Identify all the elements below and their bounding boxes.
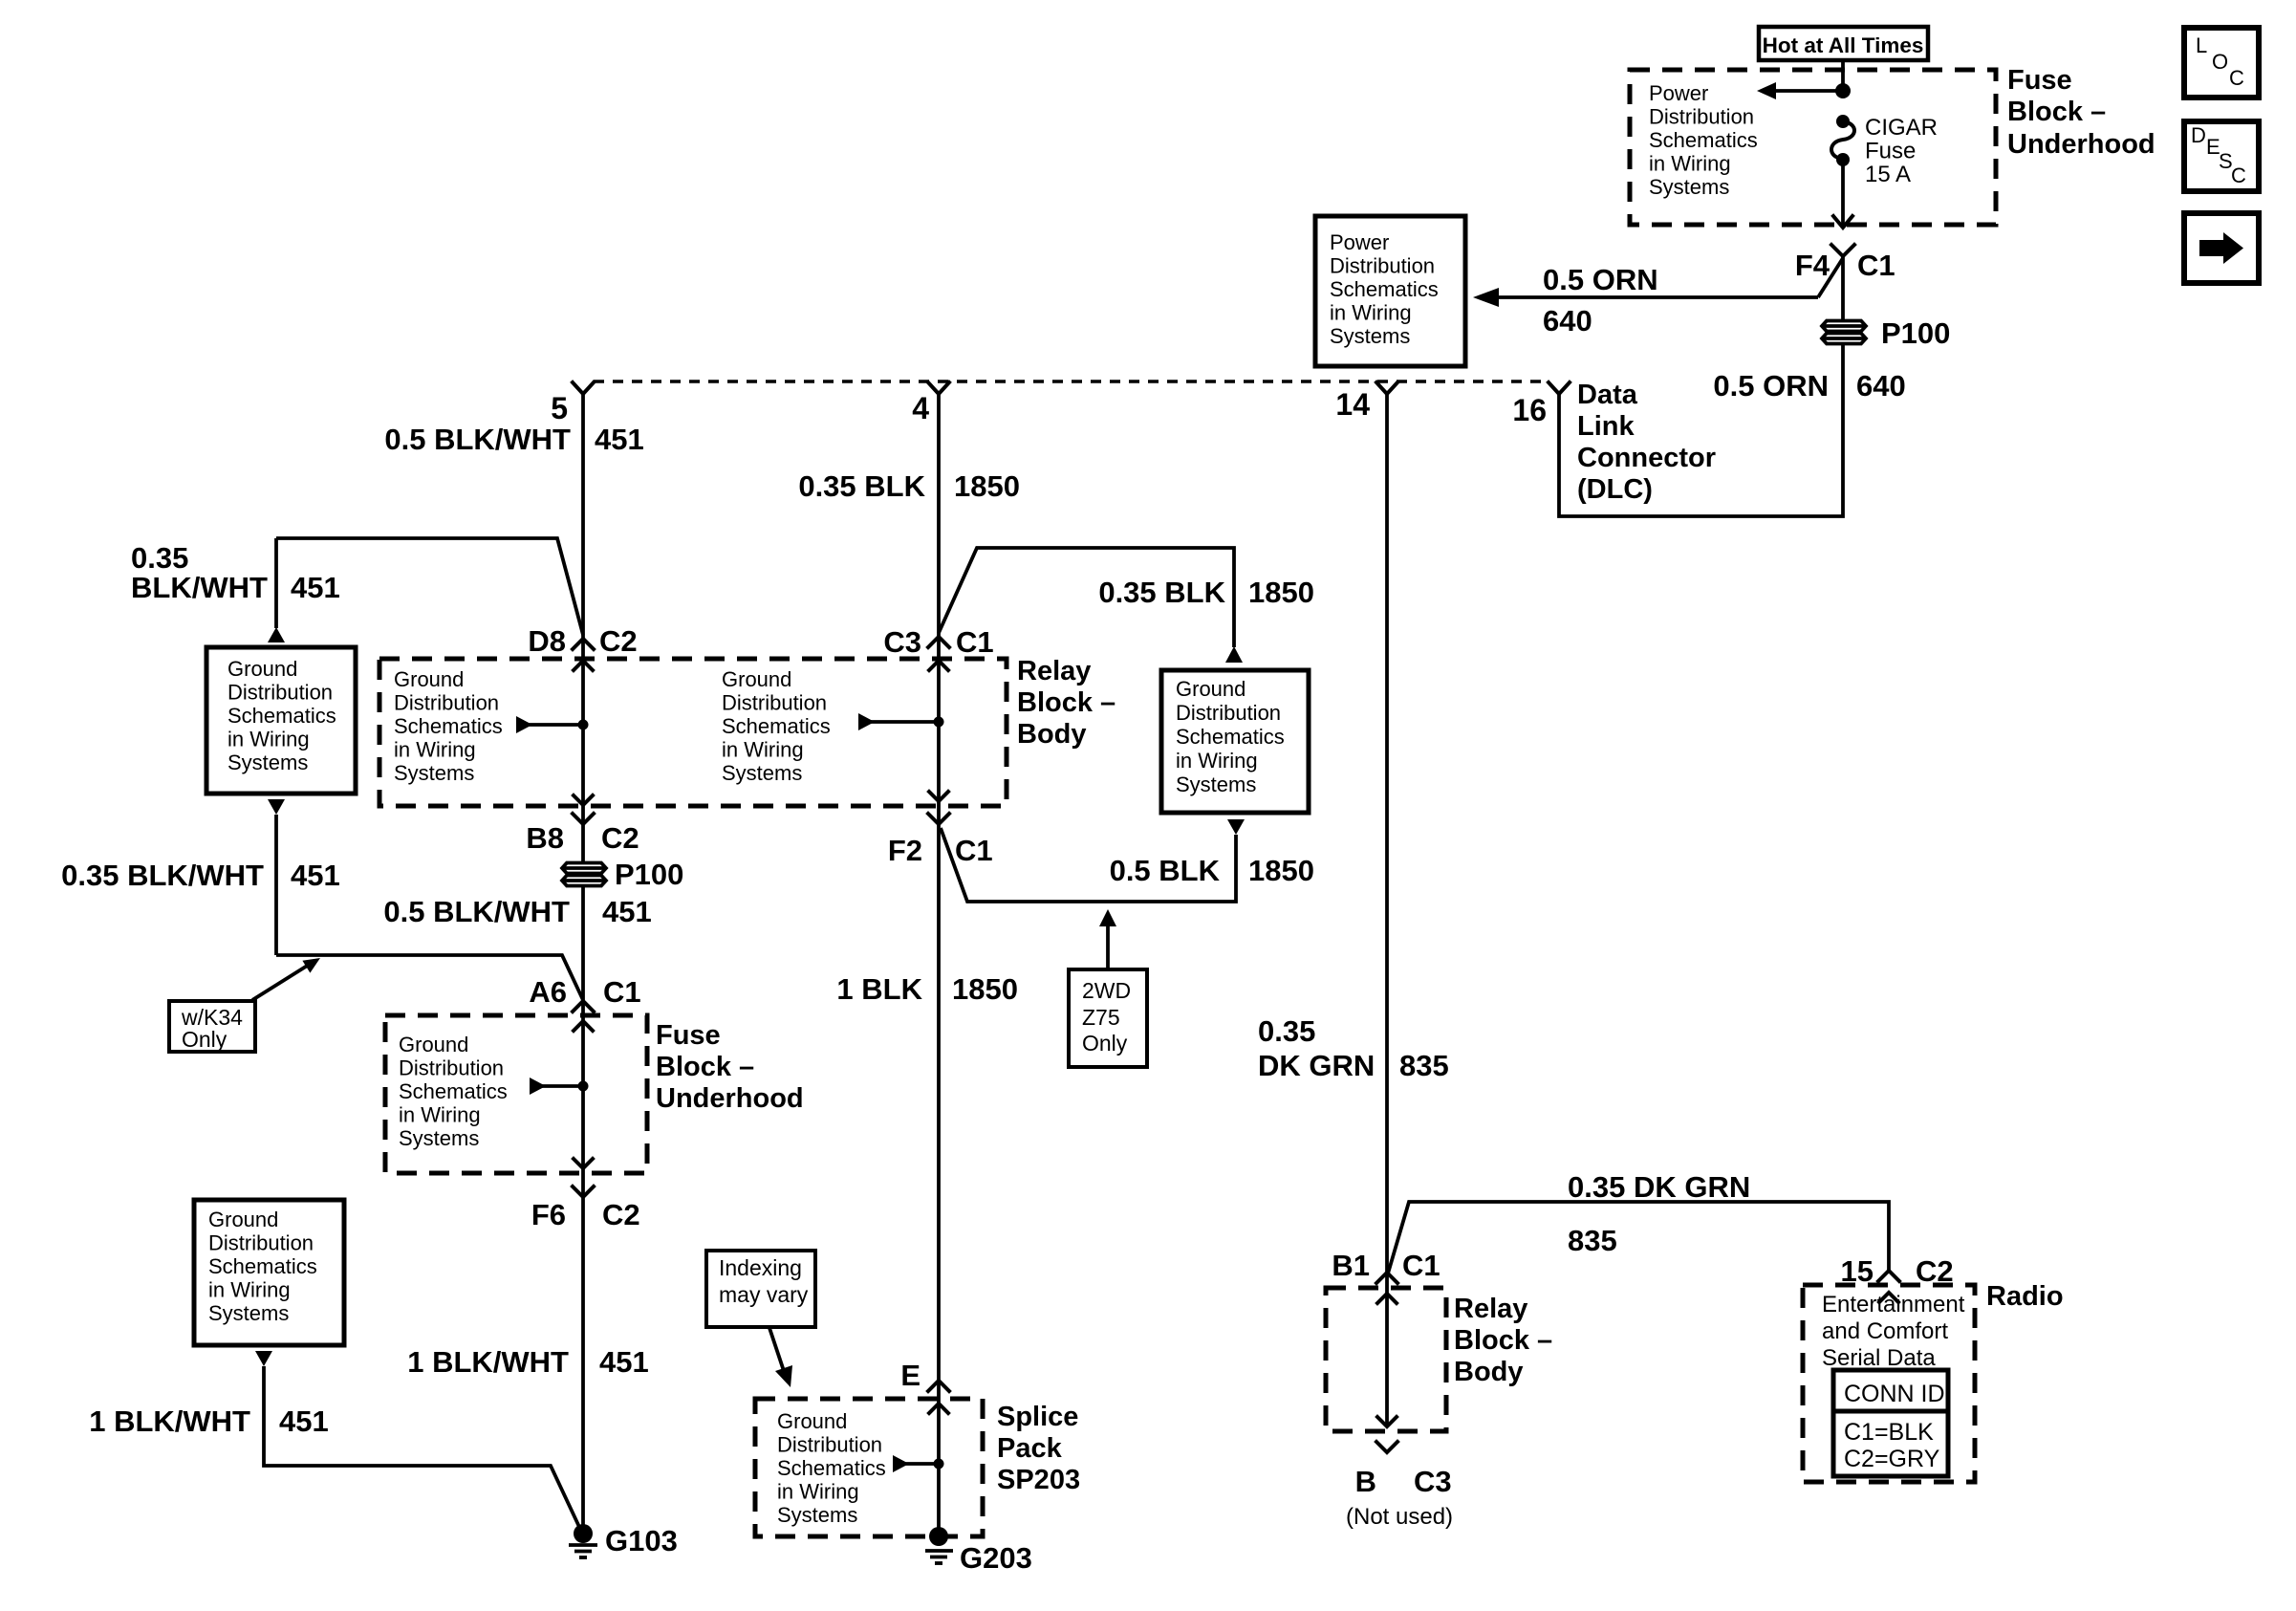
up chevron below top border (radio) (1879, 1293, 1898, 1302)
svg-text:Block –: Block – (1454, 1325, 1552, 1356)
arrow from Indexing box (769, 1328, 792, 1387)
svg-text:Systems: Systems (777, 1503, 857, 1527)
svg-text:D8: D8 (528, 624, 566, 658)
reference text Ground Distribution (fuse block) (399, 1033, 508, 1150)
svg-text:in Wiring: in Wiring (394, 738, 476, 762)
svg-text:451: 451 (599, 1345, 649, 1379)
wire P100 down, DLC right bracket to pin 16 (1559, 344, 1843, 516)
svg-text:Distribution: Distribution (777, 1433, 882, 1457)
svg-text:C1: C1 (603, 975, 641, 1009)
svg-text:Distribution: Distribution (399, 1056, 504, 1080)
wire B1 to B inside relay block (1385, 1274, 1389, 1426)
arrow wire to power distribution reference (1757, 82, 1843, 99)
svg-text:Fuse: Fuse (2007, 65, 2072, 96)
svg-text:Schematics: Schematics (399, 1079, 508, 1103)
svg-text:C1: C1 (1857, 249, 1895, 282)
svg-text:P100: P100 (615, 858, 683, 891)
label CIGAR Fuse 15 A (1865, 115, 1938, 187)
fuse CIGAR 15 A (1831, 115, 1854, 166)
pin E fork (928, 1381, 949, 1391)
up chevron below top border (E) (929, 1404, 948, 1413)
solid box Ground Distribution Schematics (upper left) (206, 647, 356, 794)
label 0.5 BLK/WHT | 451 (below P100) (383, 895, 651, 928)
connector D8/C2 fork (573, 639, 594, 649)
svg-text:Distribution: Distribution (1330, 254, 1435, 278)
svg-text:P100: P100 (1881, 316, 1950, 350)
svg-text:Distribution: Distribution (1176, 701, 1281, 725)
svg-text:Distribution: Distribution (208, 1231, 314, 1255)
svg-text:B1: B1 (1332, 1249, 1370, 1282)
svg-text:Only: Only (182, 1027, 227, 1052)
svg-text:C1: C1 (1402, 1249, 1440, 1282)
svg-text:0.5 ORN: 0.5 ORN (1543, 263, 1658, 296)
svg-text:1850: 1850 (952, 972, 1018, 1006)
svg-text:Only: Only (1082, 1031, 1128, 1056)
svg-text:Schematics: Schematics (227, 704, 336, 728)
svg-text:Block –: Block – (1017, 687, 1116, 718)
svg-text:in Wiring: in Wiring (227, 728, 310, 751)
svg-text:SP203: SP203 (997, 1465, 1080, 1495)
svg-text:Block –: Block – (656, 1052, 754, 1082)
reference text Ground Distribution (splice pack) (777, 1409, 886, 1527)
svg-text:F6: F6 (531, 1198, 566, 1231)
svg-text:Ground: Ground (722, 667, 791, 691)
svg-text:Power: Power (1330, 230, 1389, 254)
component label Fuse Block - Underhood (left) (656, 1020, 804, 1114)
svg-text:Ground: Ground (394, 667, 464, 691)
svg-text:C1: C1 (955, 834, 993, 867)
label 0.5 BLK | 1850 (branch) (1110, 854, 1314, 887)
svg-text:835: 835 (1568, 1224, 1617, 1257)
svg-text:Entertainment: Entertainment (1822, 1292, 1965, 1317)
reference text Power Distribution Schematics in Wiring Systems (in fuse block) (1649, 81, 1758, 199)
svg-text:Schematics: Schematics (208, 1254, 317, 1278)
svg-text:C3: C3 (883, 625, 921, 659)
svg-text:and Comfort: and Comfort (1822, 1318, 1948, 1344)
connector F6/C2 fork (573, 1186, 594, 1197)
svg-text:Systems: Systems (399, 1126, 479, 1150)
2WD Z75 Only box (1069, 969, 1147, 1067)
svg-text:F2: F2 (888, 834, 922, 867)
svg-text:C: C (2231, 163, 2246, 187)
svg-text:0.5 ORN: 0.5 ORN (1713, 369, 1829, 403)
svg-text:Serial Data: Serial Data (1822, 1345, 1936, 1371)
component label Relay Block - Body (upper) (1017, 656, 1116, 750)
arrow from w/K34 box to wire (252, 958, 320, 1000)
connector 15/C2 fork at radio (1878, 1271, 1899, 1281)
svg-text:5: 5 (551, 391, 568, 425)
svg-text:Ground: Ground (399, 1033, 468, 1056)
svg-text:CIGAR: CIGAR (1865, 115, 1938, 141)
svg-text:Body: Body (1454, 1357, 1524, 1387)
svg-text:0.35 DK GRN: 0.35 DK GRN (1568, 1170, 1750, 1204)
svg-text:Distribution: Distribution (1649, 105, 1754, 129)
svg-text:Ground: Ground (227, 657, 297, 681)
connector F4/C1 fork (1831, 245, 1854, 256)
svg-text:Data: Data (1577, 380, 1638, 410)
svg-text:451: 451 (595, 423, 644, 456)
wire F6 to ground G103 (581, 1197, 585, 1526)
connector F2/C1 fork (928, 814, 949, 824)
svg-text:1 BLK/WHT: 1 BLK/WHT (89, 1404, 250, 1438)
svg-text:Schematics: Schematics (394, 714, 503, 738)
svg-text:0.35 BLK: 0.35 BLK (798, 469, 925, 503)
wire F4 to P100 (1841, 256, 1845, 322)
svg-text:Z75: Z75 (1082, 1005, 1120, 1030)
wire A6 through fuse block to F6 (581, 1001, 585, 1197)
wire pin 14 down to B1 (1385, 394, 1389, 1274)
svg-text:451: 451 (279, 1404, 329, 1438)
wire P100 to A6 (581, 886, 585, 1000)
svg-text:G103: G103 (605, 1524, 678, 1557)
up chevron below top border (pin4 wire) (929, 661, 948, 670)
solid box Power Distribution Schematics in Wiring Systems (1315, 216, 1465, 366)
svg-text:451: 451 (602, 895, 652, 928)
svg-text:BLK/WHT: BLK/WHT (131, 571, 268, 604)
svg-text:Relay: Relay (1017, 656, 1091, 686)
label 1 BLK | 1850 (pin4 wire) (836, 972, 1018, 1006)
svg-text:C2: C2 (602, 1198, 640, 1231)
svg-text:A6: A6 (529, 975, 567, 1009)
component label Data Link Connector (DLC) (1577, 380, 1716, 505)
Indexing may vary box (706, 1251, 815, 1327)
P100 pass-through connector (top) (1822, 321, 1866, 344)
svg-text:Fuse: Fuse (1865, 139, 1916, 164)
svg-text:Distribution: Distribution (227, 681, 333, 705)
wire from Hot at All Times down into fuse block (1841, 60, 1845, 91)
svg-text:451: 451 (291, 859, 340, 892)
svg-text:Block –: Block – (2007, 97, 2106, 127)
svg-text:Body: Body (1017, 719, 1087, 750)
component label Splice Pack SP203 (997, 1402, 1080, 1495)
dashed box Relay Block - Body (lower) (1326, 1288, 1446, 1431)
DLC dashed connector face line (594, 380, 1549, 383)
reference text Ground Distribution (dashed row, left) (394, 667, 503, 785)
dashed box Splice Pack SP203 (755, 1399, 983, 1536)
svg-text:640: 640 (1543, 304, 1592, 337)
label 0.35 / DK GRN | 835 (pin 14 wire) (1258, 1014, 1449, 1082)
label 0.35 BLK | 1850 (pin 4 wire) (798, 469, 1020, 503)
svg-text:16: 16 (1512, 393, 1547, 427)
branch wire B1 to radio 15/C2 (1388, 1202, 1889, 1274)
svg-text:D: D (2191, 123, 2206, 147)
svg-text:Distribution: Distribution (722, 691, 827, 715)
svg-text:DK GRN: DK GRN (1258, 1049, 1375, 1082)
svg-text:0.35: 0.35 (1258, 1014, 1315, 1048)
svg-text:Schematics: Schematics (1176, 725, 1285, 749)
wire 0.5 ORN 640 with arrow to power distribution box (1473, 288, 1818, 307)
svg-text:640: 640 (1856, 369, 1906, 403)
label 1 BLK/WHT | 451 (F6 wire) (407, 1345, 649, 1379)
DLC pin 16 fork (1549, 382, 1570, 394)
svg-text:Hot at All Times: Hot at All Times (1763, 33, 1924, 57)
component label Fuse Block - Underhood (top) (2007, 65, 2155, 160)
svg-text:Distribution: Distribution (394, 691, 499, 715)
svg-text:Schematics: Schematics (722, 714, 831, 738)
svg-text:14: 14 (1335, 387, 1370, 422)
arrow and junction to pin4 wire (858, 713, 944, 730)
connector B/C3 fork (not used) (1376, 1442, 1397, 1452)
svg-text:0.35 BLK/WHT: 0.35 BLK/WHT (61, 859, 264, 892)
arrow into upper-left box bottom (268, 799, 285, 815)
wire from upper-left box down (274, 815, 278, 955)
svg-text:Indexing: Indexing (719, 1255, 802, 1280)
arrow and junction (splice pack) (893, 1455, 944, 1472)
svg-text:Splice: Splice (997, 1402, 1078, 1432)
svg-text:C1: C1 (956, 625, 994, 659)
svg-text:0.35 BLK: 0.35 BLK (1098, 576, 1225, 609)
branch wire 0.5 BLK from F2 to right box bottom (941, 819, 1245, 902)
arrow out of bottom-left box (255, 1351, 272, 1366)
svg-text:B8: B8 (526, 821, 564, 855)
svg-text:Link: Link (1577, 411, 1635, 442)
P100 pass-through connector (left) (562, 863, 606, 886)
svg-text:1850: 1850 (954, 469, 1020, 503)
ground G203 (925, 1527, 953, 1563)
svg-text:Underhood: Underhood (2007, 129, 2155, 160)
svg-text:4: 4 (912, 391, 929, 425)
svg-text:in Wiring: in Wiring (1649, 152, 1731, 176)
arrow from 2WD box to wire (1099, 909, 1116, 969)
svg-text:1 BLK/WHT: 1 BLK/WHT (407, 1345, 569, 1379)
CONN ID table (1833, 1370, 1948, 1476)
svg-text:Ground: Ground (208, 1208, 278, 1231)
svg-text:Schematics: Schematics (1330, 277, 1439, 301)
dashed box Fuse Block - Underhood (left) (385, 1015, 647, 1173)
svg-text:2WD: 2WD (1082, 978, 1131, 1003)
label 0.35 BLK/WHT | 451 (left wire) (61, 859, 340, 892)
dashed box Radio (1803, 1285, 1975, 1482)
label 1 BLK/WHT | 451 (bottom branch) (89, 1404, 329, 1438)
svg-text:1850: 1850 (1248, 576, 1314, 609)
svg-text:C2: C2 (601, 821, 639, 855)
DLC pin 5 fork (573, 382, 594, 394)
svg-text:in Wiring: in Wiring (722, 738, 804, 762)
svg-text:in Wiring: in Wiring (208, 1278, 291, 1302)
legend DESC box (2184, 121, 2259, 191)
junction node in fuse block (1835, 83, 1851, 98)
svg-text:15 A: 15 A (1865, 162, 1911, 187)
connector B1/C1 fork (1376, 1273, 1397, 1283)
svg-text:C: C (2229, 66, 2244, 90)
connector B8/C2 fork (573, 814, 594, 824)
svg-text:Relay: Relay (1454, 1294, 1527, 1324)
legend LOC box (2184, 28, 2259, 98)
up chevron below top border (A6) (574, 1021, 593, 1031)
svg-text:(DLC): (DLC) (1577, 474, 1653, 505)
svg-text:C3: C3 (1414, 1465, 1452, 1498)
svg-text:Radio: Radio (1986, 1281, 2064, 1312)
svg-text:C2=GRY: C2=GRY (1844, 1446, 1940, 1472)
svg-text:835: 835 (1399, 1049, 1449, 1082)
svg-text:Connector: Connector (1577, 443, 1716, 473)
svg-text:0.5 BLK/WHT: 0.5 BLK/WHT (384, 423, 571, 456)
component label Relay Block - Body (lower) (1454, 1294, 1552, 1387)
up chevron below top border (B1) (1377, 1294, 1397, 1303)
svg-text:in Wiring: in Wiring (1330, 301, 1412, 325)
svg-text:C1=BLK: C1=BLK (1844, 1419, 1934, 1446)
svg-text:(Not used): (Not used) (1346, 1504, 1453, 1530)
svg-text:Systems: Systems (722, 761, 802, 785)
svg-text:0.5 BLK/WHT: 0.5 BLK/WHT (383, 895, 570, 928)
svg-text:E: E (900, 1359, 921, 1392)
svg-text:may vary: may vary (719, 1282, 809, 1307)
branch wire to A6 (276, 955, 583, 1000)
reference text Ground Distribution (dashed row, right) (722, 667, 831, 785)
svg-text:Pack: Pack (997, 1433, 1063, 1464)
wire fuse to F4 (1841, 160, 1845, 228)
wire E to G203 (937, 1381, 941, 1528)
up chevron below top border (pin5 wire) (574, 661, 593, 670)
solid box Ground Distribution Schematics (bottom left) (194, 1200, 344, 1345)
svg-text:Power: Power (1649, 81, 1708, 105)
connector C3/C1 fork (928, 637, 949, 647)
wire from bottom-left box to G103 (264, 1366, 579, 1527)
label 0.35 BLK | 1850 (branch) (1098, 576, 1314, 609)
svg-text:B: B (1355, 1465, 1376, 1498)
dashed box ground distribution row / Relay Block - Body (379, 659, 1007, 806)
legend arrow box (2184, 213, 2259, 283)
DLC pin 4 fork (928, 382, 949, 394)
svg-text:in Wiring: in Wiring (1176, 749, 1258, 773)
branch wire C3 to right ground distribution box (939, 548, 1243, 663)
svg-text:Schematics: Schematics (777, 1456, 886, 1480)
svg-text:Ground: Ground (777, 1409, 847, 1433)
arrow and junction (fuse block) (530, 1078, 589, 1095)
svg-text:1 BLK: 1 BLK (836, 972, 922, 1006)
arrow chevron down at fuse block bottom border (1833, 216, 1852, 228)
svg-text:F4: F4 (1795, 249, 1830, 282)
text Entertainment and Comfort Serial Data (1822, 1292, 1965, 1371)
svg-text:Underhood: Underhood (656, 1083, 804, 1114)
svg-text:Systems: Systems (394, 761, 474, 785)
wire pin 5 down through ground distribution row to P100 (left) (581, 394, 585, 864)
svg-text:Systems: Systems (1176, 773, 1256, 796)
svg-text:Systems: Systems (227, 751, 308, 774)
svg-text:Systems: Systems (1649, 175, 1729, 199)
svg-text:L: L (2196, 33, 2207, 57)
down chevron above bottom border (pin5 wire) (574, 795, 593, 805)
branch slant from C1 to ORN wire (1818, 258, 1843, 297)
arrow and junction to pin5 wire (516, 716, 589, 733)
svg-text:G203: G203 (960, 1541, 1032, 1575)
DLC pin 14 fork (1376, 382, 1397, 394)
dashed box Fuse Block - Underhood (top) (1630, 70, 1996, 225)
svg-text:in Wiring: in Wiring (399, 1103, 481, 1127)
svg-text:1850: 1850 (1248, 854, 1314, 887)
down chevron above bottom border (B) (1377, 1417, 1397, 1426)
svg-text:CONN ID: CONN ID (1844, 1381, 1945, 1407)
svg-text:Systems: Systems (1330, 324, 1410, 348)
svg-text:in Wiring: in Wiring (777, 1480, 859, 1504)
svg-text:Fuse: Fuse (656, 1020, 721, 1051)
label 0.35 / BLK/WHT / 451 (branch) (131, 541, 340, 604)
down chevron above bottom border (pin4 wire) (929, 792, 948, 801)
ground G103 (569, 1524, 597, 1557)
svg-text:0.35: 0.35 (131, 541, 188, 575)
svg-text:0.5 BLK: 0.5 BLK (1110, 854, 1221, 887)
wire pin 4 down to E / splice pack (937, 394, 941, 1381)
label box "Hot at All Times" (1759, 27, 1928, 60)
solid box Ground Distribution Schematics (right) (1161, 670, 1309, 813)
w/K34 Only box (169, 1001, 255, 1052)
svg-text:Ground: Ground (1176, 677, 1245, 701)
down chevron above bottom border (F6) (574, 1159, 593, 1168)
svg-text:451: 451 (291, 571, 340, 604)
svg-text:C2: C2 (599, 624, 638, 658)
branch wire D8 to left ground distribution box (268, 538, 583, 642)
svg-text:Schematics: Schematics (1649, 128, 1758, 152)
svg-text:O: O (2212, 50, 2228, 74)
svg-text:Systems: Systems (208, 1301, 289, 1325)
connector A6/C1 fork (573, 1001, 594, 1012)
